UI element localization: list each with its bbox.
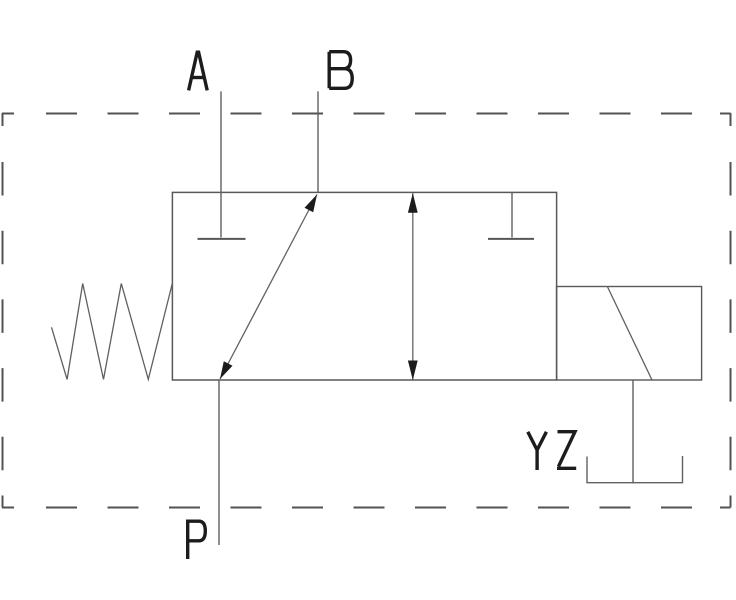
- flow path arrow P to B: lower arrowhead: [220, 361, 233, 379]
- flow path arrow P to B: upper arrowhead: [305, 195, 318, 213]
- port T blocked T-bar: [488, 238, 534, 240]
- enclosure dashed border right: [730, 113, 732, 508]
- spring: [52, 284, 173, 380]
- solenoid box: [557, 287, 702, 381]
- port B label: [329, 52, 352, 89]
- port A line: [220, 91, 222, 237]
- valve body envelope: [172, 192, 556, 380]
- YZ label: [528, 432, 576, 470]
- enclosure dashed border left: [2, 113, 4, 508]
- port P line: [218, 380, 220, 545]
- port P label: [188, 521, 206, 559]
- YZ connector bracket: [587, 456, 683, 483]
- port A blocked T-bar: [198, 238, 246, 240]
- solenoid diagonal stroke: [608, 287, 652, 380]
- flow path arrow A to T: lower arrowhead: [408, 361, 418, 381]
- enclosure dashed border top: [2, 113, 731, 115]
- flow path arrow A to T: shaft: [412, 193, 414, 380]
- flow path arrow A to T: upper arrowhead: [408, 193, 418, 213]
- port T line: [511, 192, 513, 237]
- solenoid stem wire: [632, 380, 634, 484]
- enclosure dashed border bottom: [2, 507, 731, 509]
- port B line: [317, 91, 319, 192]
- flow path arrow P to B: shaft: [220, 195, 317, 380]
- port A label: [189, 52, 208, 90]
